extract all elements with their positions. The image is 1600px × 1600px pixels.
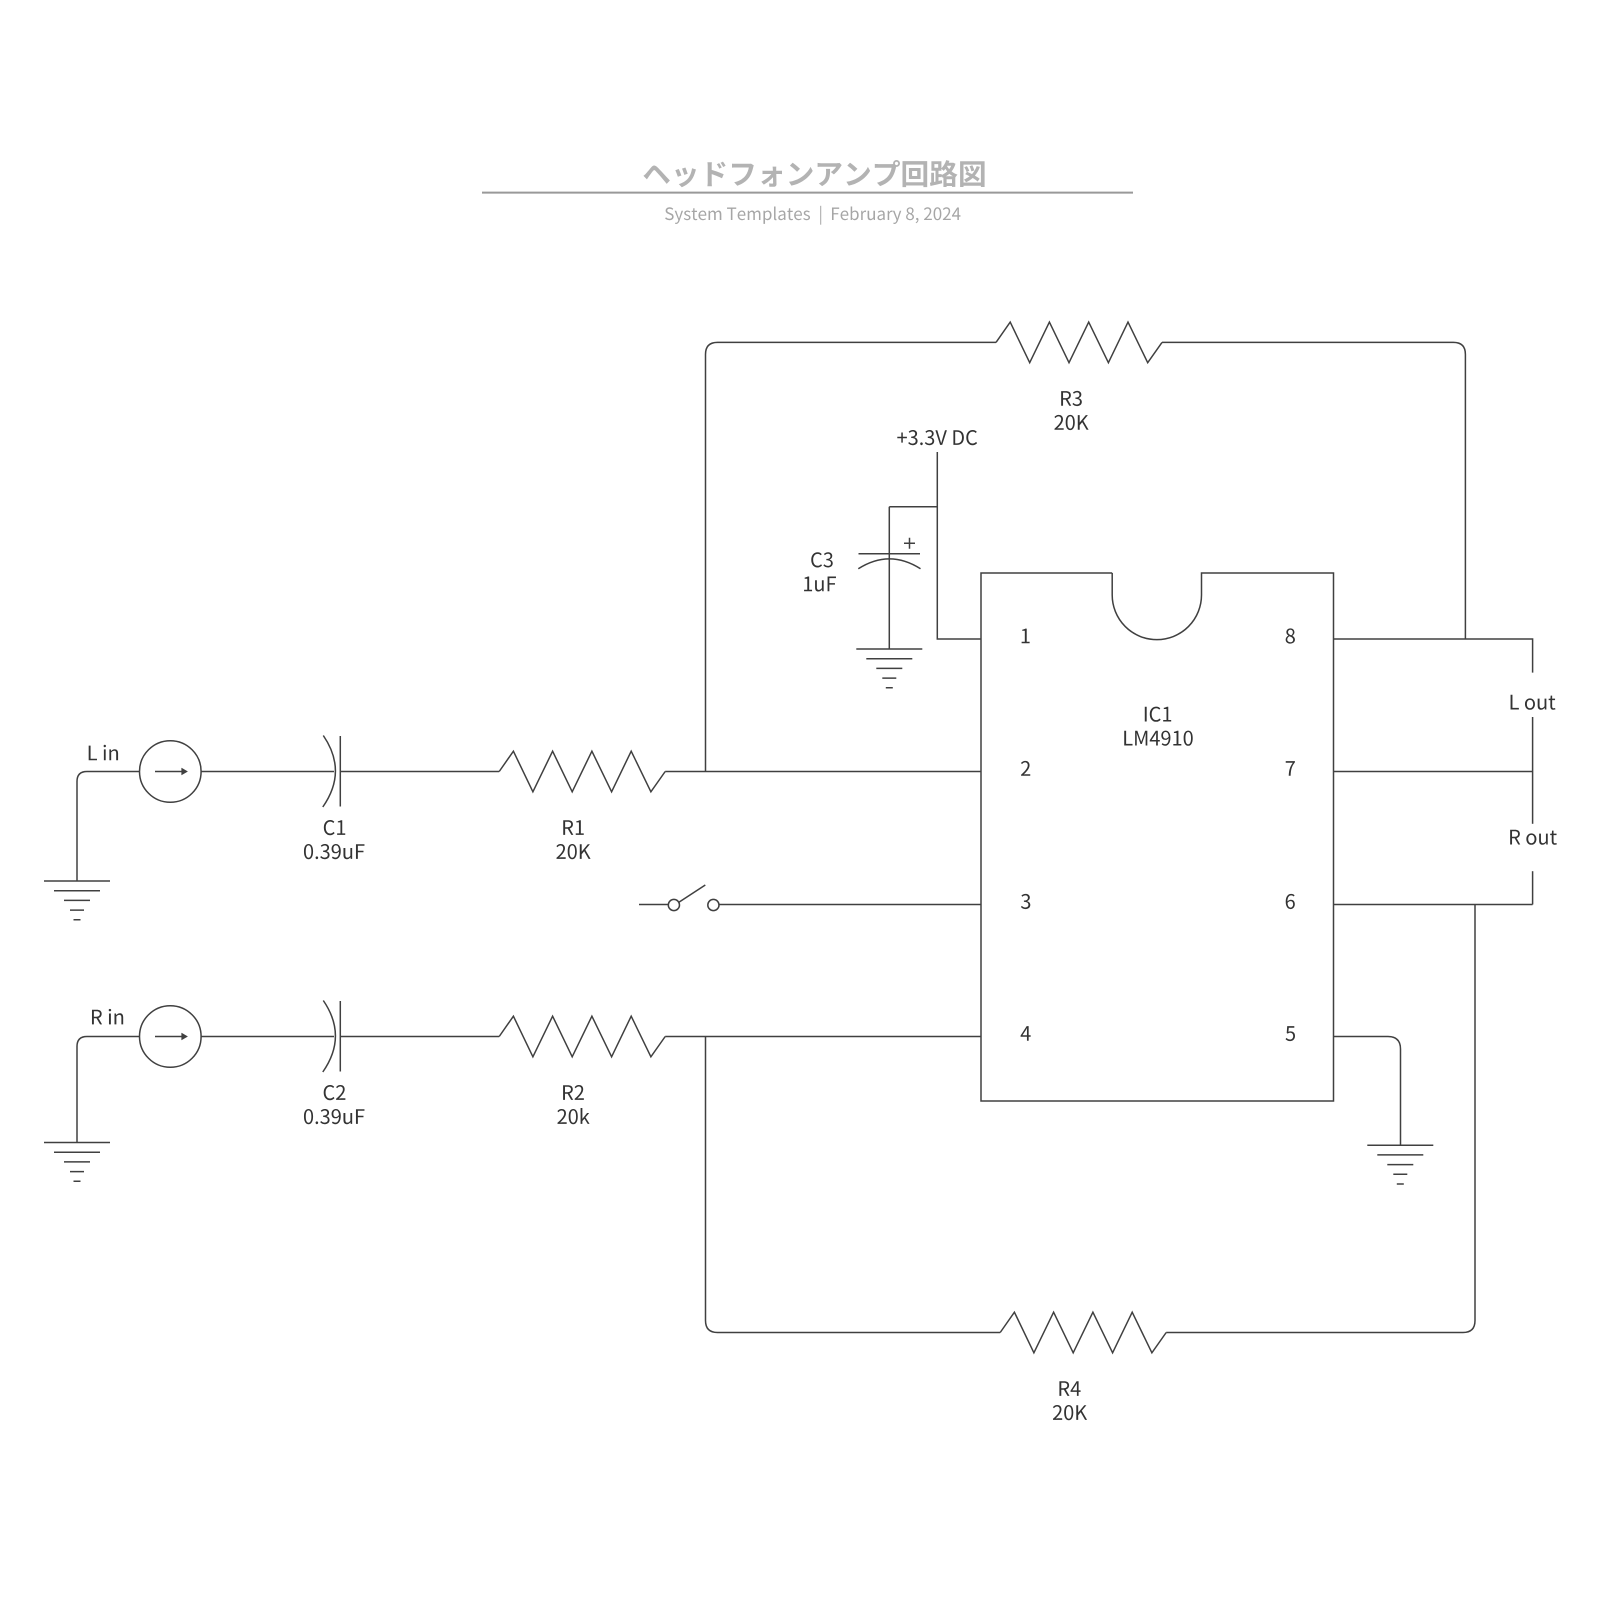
label R2	[563, 1085, 584, 1100]
wire R3 to pin8 junction (right vertical)	[1162, 342, 1465, 639]
label IC1	[1145, 707, 1171, 722]
switch SW1 lever	[679, 885, 706, 903]
label R4	[1059, 1381, 1080, 1396]
switch SW1 right contact	[708, 899, 719, 910]
capacitor C1	[323, 736, 336, 808]
wire C3 branch	[889, 506, 937, 508]
label R1	[563, 820, 584, 835]
label R3	[1061, 391, 1082, 406]
wire C2 to R2	[341, 1036, 499, 1038]
wire +3.3V DC supply to IC pin 1	[937, 452, 981, 639]
wire pin4 junction down-left vertical to bottom	[706, 1037, 1001, 1333]
node L out label	[1511, 695, 1556, 710]
wire S1 to C1	[201, 771, 334, 773]
wire R out terminal to pin 6 node	[1532, 871, 1534, 904]
pin 8 number	[1286, 628, 1295, 643]
wire L out terminal to pin 7 node	[1532, 717, 1534, 824]
label C2	[324, 1085, 346, 1100]
current source S1 (L in)	[140, 741, 202, 803]
ground for C3	[856, 649, 922, 688]
label R3 value 20K	[1054, 415, 1088, 430]
net +3.3V DC label	[897, 430, 977, 445]
title underline	[482, 192, 1133, 194]
pin 2 number	[1021, 761, 1030, 776]
wire IC pin 6 output	[1334, 904, 1533, 906]
pin 3 number	[1021, 894, 1030, 909]
node L in label	[89, 745, 118, 761]
pin 7 number	[1286, 761, 1295, 776]
capacitor C3 plus plate	[859, 553, 921, 555]
pin 5 number	[1286, 1026, 1296, 1041]
label C1	[324, 820, 345, 835]
subtitle System Templates	[665, 207, 810, 225]
wire R2 to IC pin 4	[665, 1036, 981, 1038]
resistor R4	[1000, 1312, 1166, 1353]
op-amp IC1 LM4910 outline	[981, 573, 1334, 1101]
ground for L in source	[44, 881, 110, 920]
wire IC pin 5 to ground	[1334, 1037, 1401, 1146]
title ヘッドフォンアンプ回路図	[643, 160, 984, 187]
switch SW1 left contact	[668, 899, 679, 910]
resistor R1	[499, 751, 665, 792]
wire switch to IC pin 3	[719, 904, 981, 906]
node R out label	[1510, 830, 1557, 845]
label LM4910	[1124, 731, 1193, 746]
subtitle separator	[820, 206, 821, 225]
subtitle date February 8, 2024	[832, 207, 961, 225]
label C1 value 0.39uF	[304, 844, 365, 859]
pin 4 number	[1021, 1026, 1031, 1041]
ground for R in source	[44, 1143, 110, 1182]
wire R-in stub to ground corner	[77, 1037, 139, 1143]
wire R4 to pin6 junction (right vertical)	[1166, 905, 1475, 1333]
label C3	[811, 552, 833, 567]
pin 6 number	[1286, 894, 1295, 909]
wire node pin2 junction up-left vertical to top	[706, 342, 997, 771]
wire C3 lead	[888, 507, 890, 649]
label R2 value 20k	[557, 1108, 589, 1124]
wire S2 to C2	[201, 1036, 334, 1038]
capacitor C2	[323, 1001, 336, 1073]
node R in label	[92, 1009, 123, 1025]
label R4 value 20K	[1053, 1405, 1087, 1420]
resistor R2	[499, 1016, 665, 1057]
current source S2 (R in)	[140, 1006, 202, 1068]
capacitor C3 curved plate	[858, 559, 920, 569]
resistor R3	[996, 322, 1162, 363]
label C2 value 0.39uF	[304, 1109, 365, 1124]
wire IC pin 8 to L out terminal	[1334, 639, 1533, 673]
label R1 value 20K	[556, 844, 590, 859]
pin 1 number	[1022, 629, 1030, 644]
capacitor C3 polarity +	[904, 538, 915, 549]
wire R1 to IC pin 2	[665, 771, 981, 773]
label C3 value 1uF	[804, 577, 836, 592]
wire C1 to R1	[341, 771, 499, 773]
wire IC pin 7 output	[1334, 771, 1533, 773]
ground for IC pin 5	[1367, 1145, 1433, 1184]
wire L-in stub to ground corner	[77, 772, 139, 882]
switch SW1 left lead	[639, 904, 668, 906]
